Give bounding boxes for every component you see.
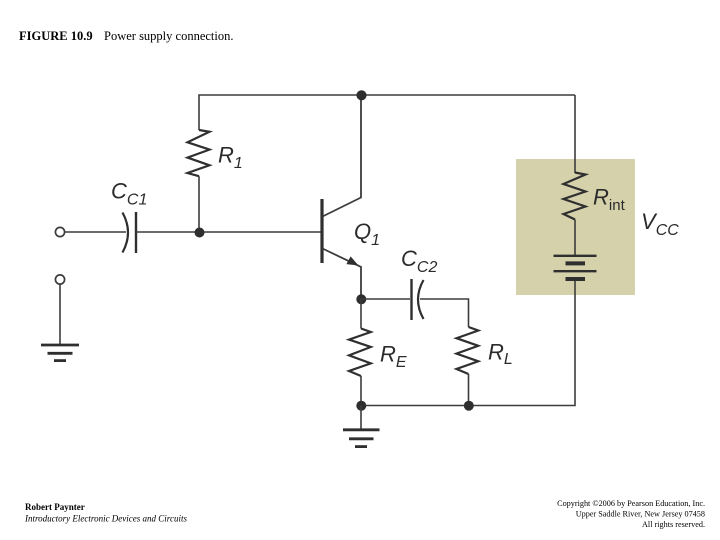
wire terminal to ground (input)	[59, 284, 61, 344]
capacitor CC2	[412, 279, 424, 320]
wire Vcc vertical (rail to box)	[574, 95, 576, 173]
wire bottom rail	[361, 281, 575, 406]
ground (input)	[41, 345, 79, 361]
resistor R1	[188, 130, 210, 232]
input terminal (signal)	[55, 227, 64, 236]
node emitter junction	[356, 294, 366, 304]
svg-text:Introductory Electronic Device: Introductory Electronic Devices and Circ…	[24, 514, 187, 524]
ground (bottom)	[343, 430, 380, 447]
svg-text:All rights reserved.: All rights reserved.	[642, 520, 705, 529]
wire to ground (bottom)	[360, 406, 362, 430]
wire CC1 to base	[136, 231, 321, 233]
svg-text:Robert Paynter: Robert Paynter	[25, 502, 85, 512]
node collector junction	[356, 90, 366, 100]
svg-text:Power supply connection.: Power supply connection.	[104, 29, 234, 43]
transistor Q1	[322, 95, 361, 299]
wire CC2 to RL	[420, 299, 469, 327]
power supply shaded box	[516, 159, 635, 295]
node RE bottom	[356, 401, 366, 411]
resistor RE	[349, 299, 371, 406]
node RL bottom	[464, 401, 474, 411]
battery VCC	[554, 256, 597, 279]
wire emitter to CC2	[361, 298, 410, 300]
input ground terminal	[55, 275, 64, 284]
svg-text:Copyright ©2006 by Pearson Edu: Copyright ©2006 by Pearson Education, In…	[557, 499, 705, 508]
svg-text:Upper Saddle River, New Jersey: Upper Saddle River, New Jersey 07458	[576, 510, 705, 519]
resistor RL	[457, 327, 479, 406]
svg-text:FIGURE 10.9: FIGURE 10.9	[19, 29, 93, 43]
wire top rail	[199, 95, 575, 130]
resistor Rint	[564, 173, 586, 256]
wire input to CC1	[65, 231, 126, 233]
node base junction	[195, 228, 205, 238]
capacitor CC1	[123, 212, 137, 253]
